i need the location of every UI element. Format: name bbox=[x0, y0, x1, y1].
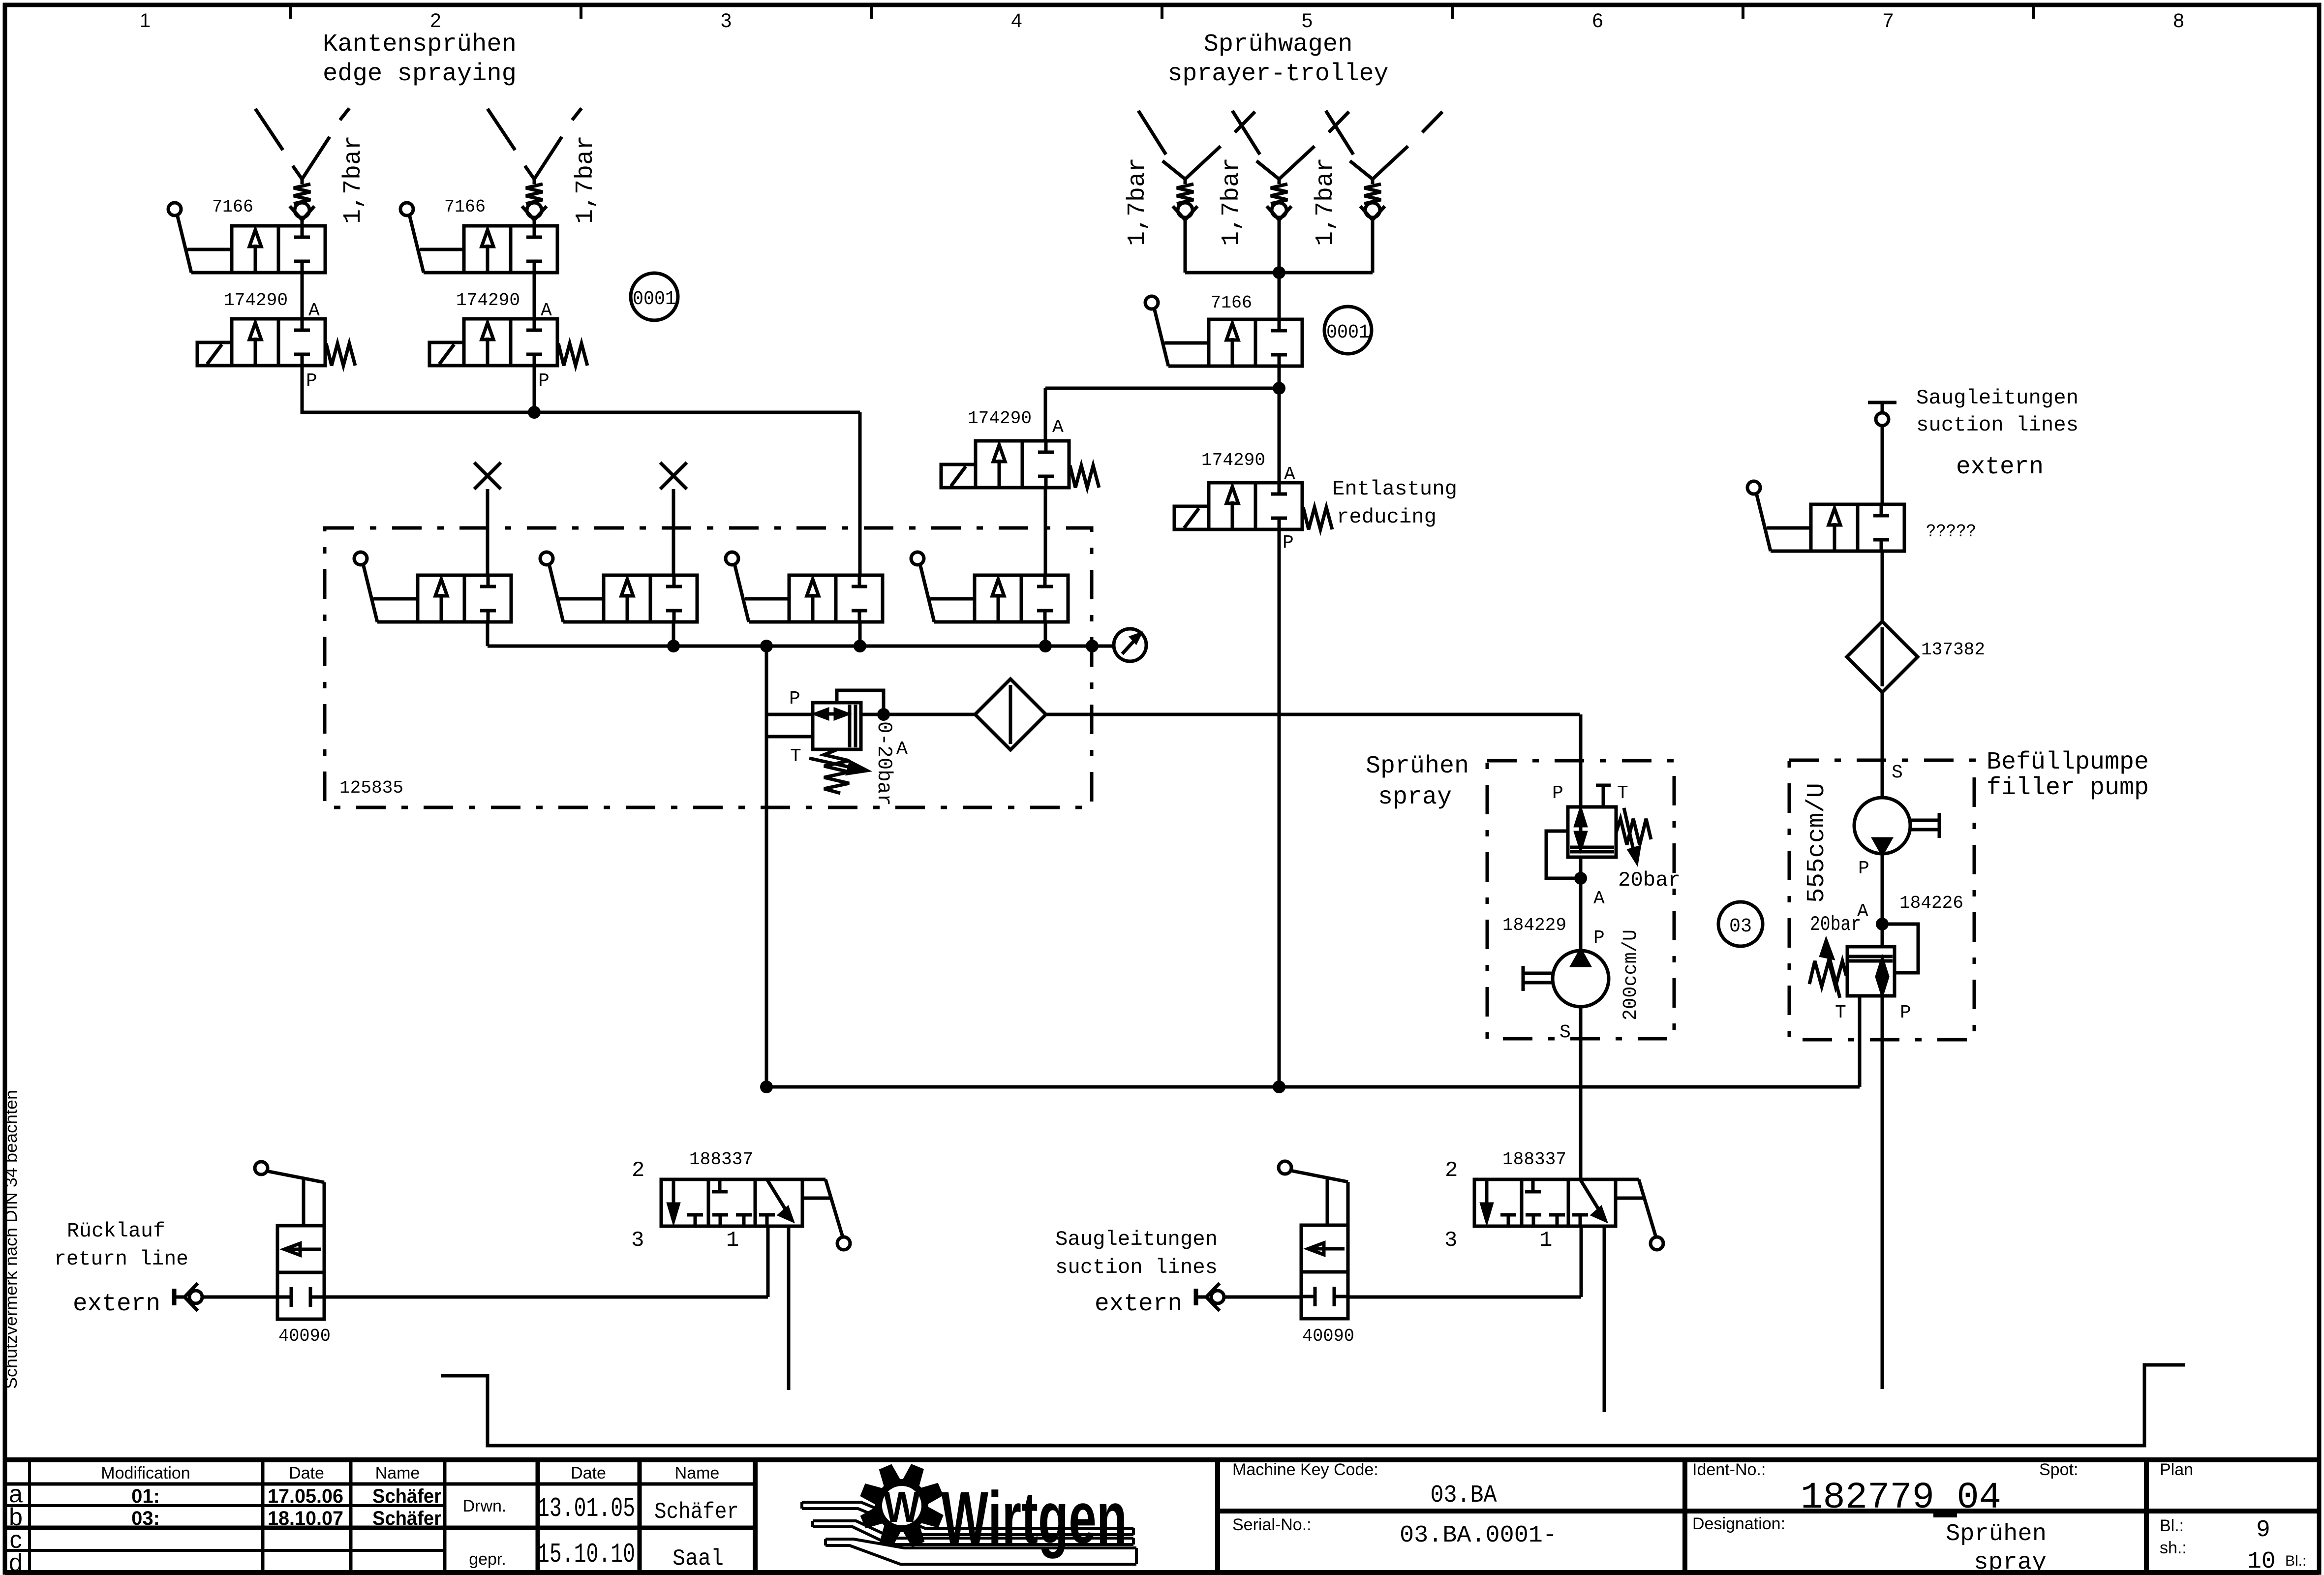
wire T stub from reducing valve bbox=[766, 735, 813, 739]
svg-text:suction lines: suction lines bbox=[1055, 1256, 1218, 1279]
svg-text:T: T bbox=[1617, 783, 1628, 804]
svg-text:S: S bbox=[1892, 762, 1903, 783]
wire filler pump P down to relief bbox=[1881, 854, 1884, 946]
svg-text:03:: 03: bbox=[131, 1508, 160, 1529]
junction dot tank bus at branch bbox=[760, 1081, 773, 1093]
svg-text:Drwn.: Drwn. bbox=[463, 1497, 507, 1515]
svg-text:P: P bbox=[1900, 1002, 1911, 1023]
svg-text:0001: 0001 bbox=[1326, 322, 1370, 344]
svg-text:03.BA: 03.BA bbox=[1431, 1482, 1497, 1510]
svg-text:Designation:: Designation: bbox=[1692, 1514, 1785, 1533]
svg-text:T: T bbox=[790, 746, 801, 767]
svg-text:40090: 40090 bbox=[278, 1326, 331, 1346]
svg-text:188337: 188337 bbox=[1502, 1149, 1566, 1170]
svg-text:7166: 7166 bbox=[444, 197, 486, 217]
svg-text:P: P bbox=[789, 688, 800, 710]
svg-text:2: 2 bbox=[1445, 1158, 1458, 1183]
svg-text:1,7bar: 1,7bar bbox=[1312, 157, 1340, 246]
plug X above lever valve 1 bbox=[474, 463, 501, 489]
wire spray pump S down to 188337 #2 bbox=[1579, 1007, 1583, 1179]
wire 188337#1 port up bbox=[766, 1226, 770, 1297]
wire 188337#2 dangling port 1 bbox=[1603, 1226, 1606, 1412]
wire trolley junction down to 174290 #4 A Entlastung bbox=[1278, 388, 1281, 483]
pilot line reducing valve bbox=[837, 690, 884, 714]
pilot line spray relief bbox=[1546, 831, 1581, 878]
svg-text:1: 1 bbox=[726, 1228, 739, 1253]
svg-text:8: 8 bbox=[2173, 10, 2184, 31]
svg-text:Schäfer: Schäfer bbox=[372, 1508, 441, 1529]
designation circle 03 bbox=[1718, 902, 1763, 946]
svg-text:Date: Date bbox=[289, 1464, 324, 1482]
svg-text:Ident-No.:: Ident-No.: bbox=[1692, 1460, 1766, 1479]
wire P stub into reducing valve bbox=[766, 713, 813, 716]
adjustable spring reducing valve bbox=[824, 750, 849, 793]
extern connector suction lines bbox=[1194, 1289, 1198, 1305]
lever valve 4 in manifold bbox=[975, 575, 1068, 622]
svg-text:Schutzvermerk nach DIN 34 beac: Schutzvermerk nach DIN 34 beachten bbox=[2, 1090, 21, 1389]
pressure reducing valve 0-20bar bbox=[813, 703, 861, 749]
svg-text:3: 3 bbox=[721, 10, 732, 31]
spray relief valve 20bar bbox=[1568, 807, 1616, 857]
junction dot filler A bbox=[1876, 918, 1889, 930]
svg-text:4: 4 bbox=[1011, 10, 1022, 31]
title block bottom line bbox=[5, 1570, 2319, 1575]
svg-text:Bl.:: Bl.: bbox=[2285, 1553, 2306, 1569]
junction dot bus at valve2 P bbox=[528, 406, 541, 419]
wire 174290#3 P down to lever valve 4 bbox=[1044, 488, 1047, 575]
wire 188337#1 dangling port 1 bbox=[787, 1226, 791, 1390]
svg-text:spray: spray bbox=[1974, 1549, 2047, 1575]
svg-text:extern: extern bbox=[73, 1290, 160, 1318]
wire Entlastung P down to tank bus bbox=[1278, 529, 1281, 1087]
lever valve ????? suction bbox=[1811, 504, 1904, 551]
nozzle 3 trolley bbox=[1138, 111, 1166, 154]
title block horizontals right bbox=[1218, 1509, 2319, 1513]
svg-text:1,7bar: 1,7bar bbox=[572, 135, 600, 224]
svg-text:18.10.07: 18.10.07 bbox=[268, 1508, 343, 1529]
svg-text:?????: ????? bbox=[1926, 522, 1976, 542]
svg-text:15.10.10: 15.10.10 bbox=[537, 1539, 635, 1570]
svg-text:reducing: reducing bbox=[1337, 505, 1437, 529]
svg-text:suction lines: suction lines bbox=[1916, 413, 2079, 437]
nozzle 5 trolley bbox=[1326, 111, 1353, 154]
svg-text:Name: Name bbox=[375, 1464, 420, 1482]
solenoid valve 174290 #1 bbox=[232, 319, 325, 366]
svg-text:Saal: Saal bbox=[673, 1546, 724, 1572]
svg-text:A: A bbox=[1052, 417, 1064, 438]
lever valve 2 in manifold bbox=[604, 575, 697, 622]
svg-text:d: d bbox=[9, 1549, 23, 1575]
wire nozzle1 to valve 7166 #1 bbox=[301, 220, 304, 226]
valve 7166 #1 lever 2/2 bbox=[232, 226, 325, 273]
svg-text:filler pump: filler pump bbox=[1987, 774, 2149, 802]
svg-text:Serial-No.:: Serial-No.: bbox=[1232, 1515, 1312, 1534]
solenoid valve 174290 #3 bbox=[976, 441, 1069, 488]
svg-text:20bar: 20bar bbox=[1810, 913, 1861, 936]
svg-text:return line: return line bbox=[54, 1247, 188, 1271]
svg-text:A: A bbox=[896, 739, 908, 760]
svg-text:Kantensprühen: Kantensprühen bbox=[323, 31, 517, 59]
wire filter to filler pump S bbox=[1881, 692, 1884, 798]
filler pump 555ccm/U bbox=[1854, 798, 1910, 854]
svg-text:Machine Key Code:: Machine Key Code: bbox=[1232, 1460, 1378, 1479]
svg-text:184229: 184229 bbox=[1502, 915, 1566, 935]
svg-text:T: T bbox=[1835, 1002, 1846, 1023]
svg-text:Sprühwagen: Sprühwagen bbox=[1204, 31, 1353, 59]
wires lever valve outputs to manifold bus bbox=[486, 622, 489, 646]
filter 137382 bbox=[1847, 621, 1918, 692]
svg-text:5: 5 bbox=[1302, 10, 1313, 31]
svg-text:Spot:: Spot: bbox=[2039, 1460, 2078, 1479]
wire spray relief A down to pump bbox=[1579, 857, 1583, 951]
svg-text:174290: 174290 bbox=[456, 290, 520, 310]
valve 188337 #2 bbox=[1474, 1179, 1616, 1226]
svg-text:extern: extern bbox=[1956, 453, 2044, 481]
svg-text:188337: 188337 bbox=[689, 1149, 753, 1170]
svg-text:W: W bbox=[884, 1482, 920, 1531]
title block verticals bbox=[28, 1460, 31, 1573]
wire plug to lever valve 2 bbox=[672, 489, 675, 575]
svg-text:1,7bar: 1,7bar bbox=[339, 135, 367, 224]
svg-text:Saugleitungen: Saugleitungen bbox=[1916, 386, 2079, 410]
wire 188337#2 port up bbox=[1580, 1226, 1583, 1297]
svg-text:125835: 125835 bbox=[339, 778, 403, 798]
svg-text:Rücklauf: Rücklauf bbox=[67, 1219, 165, 1243]
svg-text:Wirtgen: Wirtgen bbox=[941, 1476, 1127, 1559]
wire 7166#3 output down to junction bbox=[1278, 366, 1281, 388]
check shutoff valve 40090 #2 bbox=[1301, 1225, 1348, 1319]
lever valve 1 in manifold bbox=[418, 575, 511, 622]
svg-text:Schäfer: Schäfer bbox=[654, 1499, 739, 1525]
svg-text:137382: 137382 bbox=[1921, 640, 1985, 660]
svg-text:10: 10 bbox=[2247, 1548, 2276, 1575]
svg-text:13.01.05: 13.01.05 bbox=[537, 1493, 635, 1524]
junction dot reducing valve A bbox=[877, 708, 890, 721]
Wirtgen logo swoosh stripes bbox=[802, 1502, 1133, 1528]
wire extern to 40090 #2 bbox=[1224, 1296, 1301, 1299]
svg-text:Name: Name bbox=[675, 1464, 720, 1482]
wire plug to lever valve 1 bbox=[486, 489, 489, 575]
pressure gauge bbox=[1114, 629, 1146, 661]
wires trolley nozzles to manifold bus bbox=[1184, 220, 1187, 273]
junction dot tank bus at Entlastung P bbox=[1273, 1081, 1285, 1093]
svg-text:3: 3 bbox=[631, 1228, 644, 1253]
svg-text:Sprühen: Sprühen bbox=[1366, 752, 1469, 780]
spray pump 184229 200ccm/U bbox=[1553, 951, 1609, 1007]
svg-text:184226: 184226 bbox=[1899, 893, 1963, 913]
filler relief valve 20bar bbox=[1847, 947, 1895, 996]
bottom collector pipe bbox=[441, 1365, 2185, 1446]
nozzle 2 with spring check valve 1,7bar bbox=[488, 109, 515, 150]
solenoid valve 174290 #2 bbox=[464, 319, 557, 366]
filter 1 in manifold bbox=[975, 679, 1046, 750]
wire trolley bus down to valve 7166 #3 bbox=[1278, 273, 1281, 319]
svg-text:Plan: Plan bbox=[2160, 1460, 2193, 1479]
adjustable spring filler relief bbox=[1809, 961, 1846, 987]
wire down into spray relief valve P bbox=[1579, 714, 1583, 807]
svg-text:200ccm/U: 200ccm/U bbox=[1620, 929, 1642, 1020]
svg-text:Date: Date bbox=[571, 1464, 606, 1482]
nozzle 4 trolley bbox=[1232, 111, 1260, 154]
plug X above lever valve 2 bbox=[660, 463, 687, 489]
wire down to 174290 #3 port A bbox=[1044, 388, 1047, 441]
svg-text:182779_04: 182779_04 bbox=[1801, 1477, 2001, 1519]
tank return bus bbox=[766, 1085, 1860, 1089]
svg-text:174290: 174290 bbox=[224, 290, 288, 310]
svg-text:6: 6 bbox=[1592, 10, 1603, 31]
lever valve 3 in manifold bbox=[789, 575, 883, 622]
designation circle 0001 #2 bbox=[1324, 307, 1372, 354]
svg-text:0001: 0001 bbox=[633, 288, 676, 310]
wire extern to check valve 40090 #1 bbox=[202, 1296, 277, 1299]
svg-text:174290: 174290 bbox=[968, 408, 1032, 429]
title block outer top line bbox=[5, 1457, 2319, 1462]
svg-text:03.BA.0001-: 03.BA.0001- bbox=[1400, 1522, 1557, 1549]
spray unit dashed enclosure bbox=[1487, 761, 1674, 1039]
wire reducing valve A to filter bbox=[861, 713, 975, 716]
junction dot trolley branch bbox=[1273, 382, 1285, 395]
wire 40090#2 to 188337 #2 bbox=[1348, 1296, 1581, 1299]
svg-text:S: S bbox=[1560, 1022, 1571, 1043]
svg-text:P: P bbox=[1593, 927, 1605, 949]
Wirtgen logo gear with W bbox=[904, 1466, 922, 1487]
vent T stub spray relief bbox=[1602, 785, 1605, 807]
manifold dashed enclosure 125835 bbox=[325, 528, 1092, 807]
junction dots on manifold bus bbox=[667, 640, 680, 652]
wire trolley branch left to 174290 #3 A bbox=[1045, 387, 1279, 390]
svg-text:sprayer-trolley: sprayer-trolley bbox=[1168, 60, 1389, 88]
wire filter to spray pump line bbox=[1046, 713, 1580, 716]
wire connector to valve bbox=[1881, 426, 1884, 504]
solenoid valve 174290 #4 Entlastung bbox=[1209, 483, 1302, 529]
wire filler relief P outlet down dangling bbox=[1881, 996, 1884, 1389]
grid column ticks bbox=[289, 5, 292, 19]
wire filler relief T down to tank bus bbox=[1858, 996, 1862, 1087]
valve 188337 #1 bbox=[661, 1179, 802, 1226]
svg-text:03: 03 bbox=[1729, 916, 1752, 938]
wire nozzle2 to valve 7166 #2 bbox=[533, 220, 536, 226]
svg-text:1: 1 bbox=[140, 10, 151, 31]
title block horizontals left bbox=[5, 1482, 755, 1486]
svg-text:0-20bar: 0-20bar bbox=[872, 721, 896, 806]
svg-text:A: A bbox=[1593, 888, 1605, 909]
manifold pressure bus bbox=[488, 645, 1114, 648]
svg-text:7166: 7166 bbox=[212, 197, 253, 217]
svg-text:2: 2 bbox=[632, 1158, 644, 1183]
designation circle 0001 #1 bbox=[631, 273, 678, 320]
svg-text:P: P bbox=[538, 371, 550, 392]
svg-text:spray: spray bbox=[1378, 783, 1452, 811]
wire 7166#2 to 174290#2 port A bbox=[533, 273, 536, 319]
svg-text:Modification: Modification bbox=[101, 1464, 190, 1482]
wire branch from bus down to reducing valve and tank bbox=[765, 646, 768, 1087]
svg-text:P: P bbox=[306, 371, 317, 392]
filler unit dashed enclosure bbox=[1789, 760, 1974, 1040]
svg-text:1,7bar: 1,7bar bbox=[1218, 157, 1246, 246]
svg-text:Saugleitungen: Saugleitungen bbox=[1055, 1228, 1218, 1251]
wire P 174290#1 down and bus to right bbox=[302, 366, 860, 412]
suction line connector top bbox=[1868, 401, 1896, 404]
svg-text:17.05.06: 17.05.06 bbox=[268, 1485, 343, 1507]
svg-text:gepr.: gepr. bbox=[469, 1550, 506, 1569]
svg-text:Sprühen: Sprühen bbox=[1946, 1521, 2047, 1547]
nozzle 1 with spring check valve 1,7bar bbox=[255, 109, 283, 150]
wire P 174290#2 down to bus bbox=[533, 366, 536, 412]
svg-text:Entlastung: Entlastung bbox=[1332, 477, 1457, 501]
svg-text:Schäfer: Schäfer bbox=[372, 1485, 441, 1507]
wire 7166#1 to 174290#1 port A bbox=[301, 273, 304, 319]
svg-text:1: 1 bbox=[1539, 1228, 1552, 1253]
svg-text:20bar: 20bar bbox=[1618, 868, 1681, 892]
svg-text:9: 9 bbox=[2256, 1517, 2270, 1544]
pilot line filler relief bbox=[1882, 924, 1918, 973]
check shutoff valve 40090 #1 bbox=[277, 1226, 324, 1319]
svg-text:7: 7 bbox=[1883, 10, 1894, 31]
svg-text:sh.:: sh.: bbox=[2160, 1539, 2187, 1557]
svg-text:40090: 40090 bbox=[1302, 1326, 1354, 1346]
svg-text:P: P bbox=[1283, 532, 1294, 554]
wire bus corner down to lever valve 3 bbox=[858, 412, 862, 575]
svg-text:174290: 174290 bbox=[1201, 450, 1265, 470]
svg-text:1,7bar: 1,7bar bbox=[1124, 157, 1152, 246]
svg-text:3: 3 bbox=[1444, 1228, 1457, 1253]
valve 7166 #2 lever 2/2 bbox=[464, 226, 557, 273]
svg-text:7166: 7166 bbox=[1211, 293, 1252, 313]
svg-text:2: 2 bbox=[430, 10, 441, 31]
wire 40090#1 to 188337 #1 bbox=[326, 1296, 768, 1299]
svg-text:P: P bbox=[1858, 858, 1869, 879]
svg-text:edge spraying: edge spraying bbox=[323, 60, 517, 88]
svg-text:Bl.:: Bl.: bbox=[2160, 1516, 2184, 1535]
valve 7166 #3 lever 2/2 trolley bbox=[1209, 319, 1302, 366]
extern connector return line bbox=[172, 1289, 177, 1305]
svg-text:P: P bbox=[1552, 783, 1563, 804]
svg-text:555ccm/U: 555ccm/U bbox=[1803, 783, 1831, 903]
adjustable spring spray relief bbox=[1616, 819, 1651, 845]
junction dot trolley bus bbox=[1273, 266, 1285, 279]
junction dot spray relief A bbox=[1574, 872, 1587, 885]
svg-text:extern: extern bbox=[1095, 1290, 1182, 1318]
wire valve to filter 137382 bbox=[1881, 551, 1884, 621]
svg-text:Befüllpumpe: Befüllpumpe bbox=[1987, 748, 2149, 776]
svg-text:01:: 01: bbox=[131, 1485, 160, 1507]
